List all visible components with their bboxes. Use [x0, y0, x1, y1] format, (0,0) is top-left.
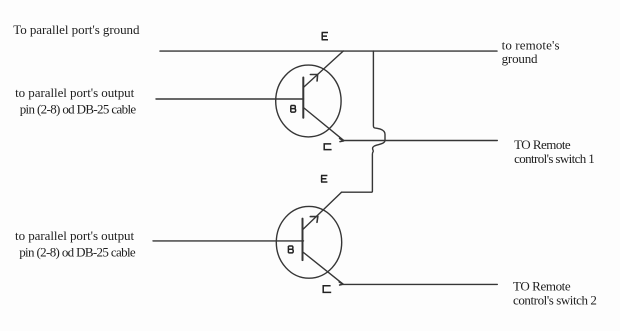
wire: Q1 base lead from parallel port	[156, 98, 304, 100]
svg-text:to parallel port's output: to parallel port's output	[15, 85, 134, 100]
wire: top ground rail	[160, 50, 497, 52]
wire: Q2 collector to remote switch 2	[343, 283, 497, 285]
svg-text:TO Remote: TO Remote	[514, 137, 571, 152]
Q1 collector arrowhead	[340, 138, 344, 141]
label: TO Remote control's switch 1	[514, 137, 595, 166]
Q1 emitter arrowhead	[310, 75, 317, 82]
Q1 collector line	[304, 108, 344, 140]
svg-text:pin (2-8) od DB-25 cable: pin (2-8) od DB-25 cable	[20, 102, 137, 117]
label: TO Remote control's switch 2	[513, 278, 597, 307]
svg-text:TO Remote: TO Remote	[513, 278, 571, 293]
Q2 emitter line	[303, 192, 342, 229]
Q2 emitter arrowhead	[310, 217, 318, 223]
transistor Q2	[276, 206, 341, 278]
Q2 collector line	[304, 253, 344, 285]
wire: Q1 collector to remote switch 1	[344, 140, 498, 142]
Q2 collector arrowhead	[339, 282, 343, 285]
pin label B (Q1)	[291, 106, 296, 113]
pin label E (Q2)	[321, 176, 327, 183]
svg-text:ground: ground	[502, 51, 538, 66]
label: to remote's ground	[502, 37, 560, 66]
svg-text:control's switch 1: control's switch 1	[514, 151, 595, 166]
svg-text:control's switch 2: control's switch 2	[513, 293, 597, 308]
pin label C (Q2)	[323, 286, 331, 293]
svg-text:to parallel port's output: to parallel port's output	[15, 228, 134, 243]
pin label B (Q2)	[288, 246, 293, 253]
svg-text:To parallel port's ground: To parallel port's ground	[13, 22, 140, 37]
Q1 emitter line	[303, 51, 343, 88]
pin label C (Q1)	[324, 144, 331, 150]
wire: emitter bus from ground rail with hop over switch-1 wire	[342, 51, 386, 192]
wire: Q2 base lead from parallel port	[153, 240, 304, 242]
svg-text:pin (2-8) od DB-25 cable: pin (2-8) od DB-25 cable	[19, 245, 136, 260]
transistor Q1	[276, 65, 341, 137]
pin label E (Q1)	[322, 33, 328, 40]
